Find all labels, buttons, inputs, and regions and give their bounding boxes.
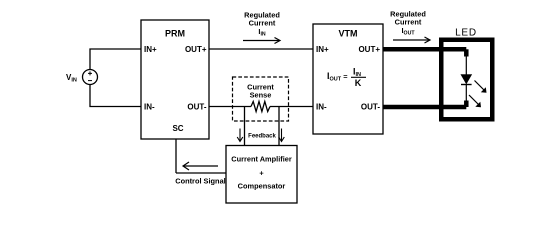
svg-text:IN+: IN+ [144, 45, 157, 54]
svg-text:IN-: IN- [316, 102, 327, 111]
resistor R sense [251, 102, 270, 112]
arrow control signal left [183, 162, 218, 170]
label Regulated Current IOUT [390, 10, 426, 37]
svg-text:Feedback: Feedback [248, 134, 276, 140]
VTM U2 box [313, 24, 383, 134]
arrow LED emission upper [475, 81, 487, 93]
diode D1 LED [461, 75, 472, 85]
svg-text:Current Amplifier: Current Amplifier [231, 155, 292, 164]
wire LED cathode [465, 84, 467, 100]
svg-text:OUT-: OUT- [187, 102, 206, 111]
svg-text:Current: Current [249, 19, 276, 28]
current amplifier U3 box [226, 146, 297, 204]
wire resistor to VTM IN- [270, 106, 313, 108]
svg-text:Sense: Sense [250, 91, 272, 100]
wire feedback tap left [244, 107, 246, 146]
label Current Sense [247, 83, 274, 100]
svg-text:PRM: PRM [165, 29, 185, 39]
svg-text:Compensator: Compensator [238, 182, 286, 191]
current sense dashed box [233, 77, 289, 121]
svg-text:LED: LED [455, 28, 477, 39]
svg-text:VTM: VTM [339, 29, 358, 39]
svg-text:+: + [259, 169, 264, 178]
wire feedback tap right [278, 107, 280, 146]
wire SC drop [175, 139, 177, 173]
svg-text:IN+: IN+ [316, 45, 329, 54]
svg-text:OUT+: OUT+ [358, 45, 380, 54]
label Current Amplifier + Compensator [231, 155, 292, 191]
svg-text:SC: SC [172, 124, 183, 133]
wire LED anode [465, 57, 467, 75]
svg-text:K: K [355, 78, 362, 88]
svg-text:Control Signal: Control Signal [175, 177, 226, 186]
arrow feedback left down [237, 129, 243, 142]
arrow feedback right down [279, 129, 285, 142]
svg-text:OUT+: OUT+ [185, 45, 207, 54]
wire thick VTM OUT- to LED [383, 105, 466, 110]
voltage source VIN [83, 70, 98, 85]
LED module box [441, 40, 492, 120]
label Regulated Current IIN [244, 11, 280, 38]
wire V_IN loop to PRM IN+/IN- [90, 49, 141, 107]
svg-text:OUT-: OUT- [361, 102, 380, 111]
wire control signal to amplifier [176, 172, 226, 174]
wire thick VTM OUT+ to LED [383, 47, 466, 52]
wire thick stub down at LED anode [464, 49, 469, 56]
wire thick stub up at LED cathode [464, 101, 469, 108]
arrow LED emission lower [469, 95, 481, 107]
arrow IOUT flow [393, 37, 430, 43]
PRM U1 box [141, 20, 209, 139]
arrow IIN flow [243, 38, 280, 44]
label formula IOUT = IIN / K [327, 67, 366, 89]
wire PRM OUT+ to VTM IN+ [209, 48, 313, 50]
svg-text:Current: Current [395, 18, 422, 27]
svg-text:IN-: IN- [144, 102, 155, 111]
wire PRM OUT- to VTM IN- with sense resistor [209, 106, 251, 108]
